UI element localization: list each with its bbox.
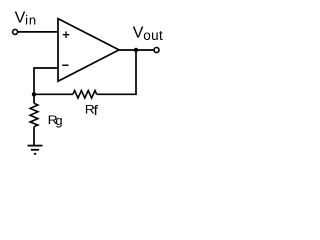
resistor Rg [30,103,38,126]
wire node to Rg [33,94,35,103]
svg-text:V: V [15,10,26,27]
resistor Rf [73,91,97,99]
wire inverting input [34,68,58,94]
wire Rg to ground [33,127,35,146]
wire opamp output [119,49,154,51]
node A (feedback node) [32,92,36,96]
op-amp U1 [58,19,119,82]
wire node to Rf [34,93,73,95]
input terminal Vin [13,29,18,34]
label Vout [133,25,163,44]
svg-text:in: in [25,12,37,27]
node output junction [134,48,138,52]
label Rg [48,113,63,128]
wire Vin to non-inverting input [18,31,58,33]
label Rf [85,102,99,118]
minus symbol (inverting input) [62,64,68,66]
svg-text:out: out [143,28,163,43]
svg-text:V: V [133,25,144,42]
svg-text:g: g [55,113,62,128]
output terminal Vout [154,48,159,53]
plus symbol (non-inverting input) [63,32,70,39]
ground [28,146,43,154]
wire Rf to output junction [97,50,136,94]
svg-text:f: f [93,103,99,118]
label Vin [15,10,37,28]
